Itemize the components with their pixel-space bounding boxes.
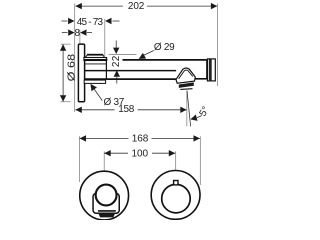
dimension 22 bbox=[109, 53, 137, 55]
spout housing cradle (front view) bbox=[93, 194, 119, 214]
spout end cap bbox=[207, 59, 215, 81]
mousseur lip (side view) bbox=[180, 88, 192, 91]
svg-text:8: 8 bbox=[75, 28, 81, 39]
dimension 168 bbox=[80, 137, 200, 139]
dimension 100 bbox=[104, 152, 175, 154]
dimension 8 bbox=[62, 32, 92, 34]
wall plate (side view) bbox=[78, 44, 84, 102]
aerator top line (front view) bbox=[98, 210, 116, 212]
svg-text:45 - 73: 45 - 73 bbox=[77, 17, 104, 28]
handle skirt line bbox=[85, 63, 107, 65]
spout end face bbox=[206, 60, 208, 79]
svg-text:Ø 29: Ø 29 bbox=[154, 42, 175, 53]
svg-text:Ø 68: Ø 68 bbox=[67, 53, 78, 81]
wire: extension line plate front bbox=[79, 30, 81, 44]
dimension D68 vertical bbox=[62, 44, 64, 101]
angle 5 degrees: vertical ref line bbox=[186, 91, 188, 127]
angle 5 degrees: slanted line bbox=[187, 91, 191, 127]
spout end cap dark band bbox=[209, 59, 212, 80]
handle knob circle (front view) bbox=[162, 184, 191, 213]
lower escutcheon bar (side view) bbox=[84, 80, 105, 83]
wire: extension line right circle center bbox=[175, 151, 177, 180]
dimension 45 - 73 bbox=[62, 20, 120, 22]
svg-text:158: 158 bbox=[118, 104, 134, 115]
svg-text:168: 168 bbox=[132, 134, 149, 145]
wire: extension line wall face bbox=[74, 4, 76, 113]
wire: extension line handle front bbox=[104, 19, 106, 56]
wire: extension line spout tip bbox=[216, 4, 218, 87]
spout bottom edge bbox=[85, 78, 177, 80]
handle cap (side view) bbox=[85, 55, 104, 58]
spout tube end circle (front view) bbox=[96, 185, 117, 206]
right escutcheon circle (front view) bbox=[151, 171, 200, 220]
wire: extension line left circle center bbox=[103, 151, 105, 171]
wire: extension line bottom-right tangent bbox=[199, 136, 201, 185]
handle notch pin (front view) bbox=[174, 181, 178, 185]
angle 5 degrees: arrow and label bbox=[189, 115, 197, 123]
mousseur (front view) bbox=[98, 213, 115, 217]
aerator collar inner lines bbox=[179, 70, 193, 79]
svg-text:202: 202 bbox=[128, 1, 145, 12]
spout tube top edge bbox=[85, 59, 108, 61]
dimension 158 bbox=[75, 109, 186, 111]
handle base bar (side view) bbox=[84, 58, 107, 61]
dimension 202 bbox=[75, 5, 217, 7]
left escutcheon circle (front view) bbox=[80, 171, 129, 220]
handle front face bbox=[105, 58, 107, 80]
spout middle line bbox=[85, 70, 177, 72]
svg-text:100: 100 bbox=[132, 148, 149, 159]
mousseur body (side view) bbox=[179, 82, 194, 88]
svg-text:22: 22 bbox=[111, 55, 122, 67]
aerator collar bbox=[176, 68, 195, 83]
wire: extension line bottom-left tangent bbox=[78, 136, 80, 182]
